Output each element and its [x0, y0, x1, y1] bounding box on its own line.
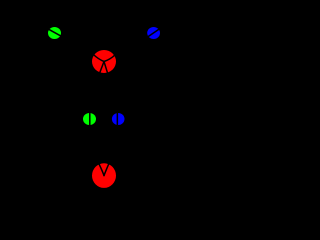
edge A-C curved ray at node C (up-left) [93, 54, 104, 62]
node A (green, top-left) [48, 27, 61, 39]
edge segment crossing node D (C-D / D-F) [89, 112, 91, 126]
node F (red, bottom) [92, 163, 116, 188]
edge segment crossing node E (C-E / E-F) [116, 112, 118, 126]
edge B-C segment crossing node B [146, 28, 162, 39]
edge C-E ray at node C (down-right) [104, 62, 108, 75]
edge E-F curved leg at node F (up-right leg of V) [104, 164, 109, 176]
node E (blue, middle-right) [112, 113, 125, 125]
edge C-D ray at node C (down-left) [99, 62, 104, 75]
edge A-C segment crossing node A [46, 28, 63, 37]
edge D-F curved leg at node F (up-left leg of V) [99, 164, 104, 175]
node B (blue, top-right) [147, 27, 160, 39]
edge B-C curved ray at node C (up-right) [104, 55, 115, 62]
node C (red, center) [92, 50, 116, 73]
node D (green, middle-left) [83, 113, 96, 125]
